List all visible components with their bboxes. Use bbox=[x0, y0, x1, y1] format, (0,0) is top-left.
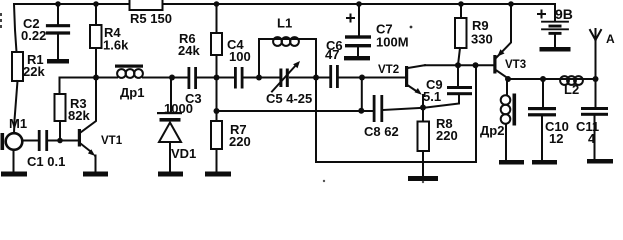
svg-text:5.1: 5.1 bbox=[423, 89, 441, 104]
wire Dr2 to ground bbox=[505, 124, 507, 160]
inductor L1 bbox=[273, 37, 282, 46]
wire C9 to VT2 emitter node bbox=[424, 95, 459, 108]
wire VT2 collector to VT3 base bbox=[425, 64, 493, 66]
resistor R7 bbox=[211, 121, 222, 149]
svg-text:C5 4-25: C5 4-25 bbox=[266, 91, 312, 106]
wire rail to R6 bbox=[216, 4, 218, 33]
capacitor C8 bbox=[373, 95, 376, 122]
svg-text:1000: 1000 bbox=[164, 101, 193, 116]
capacitor C1 bbox=[38, 130, 41, 151]
inductor Dr2 choke bbox=[501, 95, 511, 105]
wire Dr1 to C3 bbox=[143, 77, 188, 79]
node C8 left junction bbox=[358, 108, 364, 114]
node rail / R4 junction bbox=[93, 1, 99, 7]
resistor R1 bbox=[12, 52, 23, 81]
node tank feedback leg junction bbox=[473, 62, 479, 68]
ground under C2 bbox=[47, 59, 69, 64]
capacitor C7 electrolytic bbox=[345, 35, 371, 38]
svg-text:0.22: 0.22 bbox=[21, 28, 46, 43]
capacitor C4 bbox=[234, 67, 237, 89]
wire rail to C2 bbox=[57, 4, 59, 24]
wire C1 to VT1 base bbox=[48, 140, 78, 142]
svg-text:47: 47 bbox=[325, 47, 339, 62]
svg-text:220: 220 bbox=[436, 128, 458, 143]
resistor R5 bbox=[130, 0, 163, 10]
capacitor C3 bbox=[188, 67, 191, 89]
wire rail to R4 bbox=[95, 4, 97, 25]
wire VD1 to ground bbox=[169, 142, 171, 172]
node rail / C7 junction bbox=[356, 1, 362, 7]
scan artifact speck bbox=[323, 180, 325, 182]
svg-text:A: A bbox=[606, 32, 615, 46]
ground under R7 bbox=[205, 172, 231, 177]
wire C5 to C6 bbox=[290, 77, 329, 79]
wire node to Dr2 bbox=[506, 79, 508, 95]
battery GB 9V bbox=[542, 21, 568, 23]
wire top supply rail left segment bbox=[14, 3, 130, 5]
wire VT3 collector output line bbox=[508, 78, 596, 80]
antenna A bbox=[590, 30, 601, 40]
scan artifact marks left edge bbox=[0, 13, 2, 16]
transistor VT1 bbox=[78, 129, 81, 147]
ground under R8 bbox=[408, 176, 438, 181]
node R9 / C9 junction bbox=[455, 62, 461, 68]
svg-text:VT2: VT2 bbox=[378, 64, 399, 76]
ground under Dr2 bbox=[499, 160, 524, 165]
transistor VT2 bbox=[405, 66, 408, 87]
svg-text:82k: 82k bbox=[68, 108, 90, 123]
resistor R8 bbox=[418, 122, 430, 152]
capacitor C2 bbox=[48, 26, 69, 33]
wire R7 to ground bbox=[216, 149, 218, 172]
label C7 polarity plus bbox=[347, 15, 354, 22]
ground under VT1 emitter bbox=[83, 172, 108, 177]
wire rail to R9 bbox=[460, 4, 462, 18]
wire rail to C7 bbox=[358, 4, 360, 35]
svg-text:9В: 9В bbox=[555, 6, 573, 22]
capacitor C9 bbox=[447, 86, 472, 89]
ground under C10 bbox=[532, 160, 557, 165]
node VT3 collector / Dr2 junction bbox=[505, 76, 511, 82]
resistor R9 bbox=[455, 18, 467, 48]
wire C10 to ground bbox=[541, 116, 543, 160]
ground under M1 bbox=[1, 172, 27, 177]
wire node to C11 bbox=[595, 79, 597, 107]
capacitor C5 variable trimmer bbox=[279, 69, 282, 88]
node rail / C2 junction bbox=[55, 1, 61, 7]
node R6 / R7 / C3 / C4 junction bbox=[214, 75, 220, 81]
inductor Dr1 choke bbox=[117, 69, 126, 78]
microphone M1 bbox=[6, 133, 23, 150]
wire R6 to node bbox=[216, 55, 218, 78]
capacitor C6 bbox=[329, 65, 332, 88]
wire rail corner down to R1 bbox=[14, 4, 17, 52]
svg-text:12: 12 bbox=[549, 131, 563, 146]
svg-text:22k: 22k bbox=[23, 64, 45, 79]
ground under C7 bbox=[344, 56, 370, 60]
wire R3 top lead to collector node bbox=[60, 78, 97, 95]
svg-text:VT3: VT3 bbox=[505, 59, 526, 71]
node L1 right leg / tank junction bbox=[313, 75, 319, 81]
svg-text:100: 100 bbox=[229, 49, 251, 64]
scan artifact speck bbox=[422, 181, 424, 183]
svg-text:Др1: Др1 bbox=[120, 85, 144, 100]
node L1 left leg junction bbox=[256, 75, 262, 81]
wire battery to ground bbox=[554, 35, 556, 47]
wire M1 to C1 bbox=[22, 140, 38, 142]
wire C6 to VT2 base bbox=[339, 77, 405, 79]
capacitor C10 bbox=[528, 107, 556, 110]
wire base bias feedback line bbox=[217, 110, 373, 112]
svg-text:C8 62: C8 62 bbox=[364, 124, 399, 139]
inductor L2 bbox=[560, 76, 569, 85]
resistor R3 bbox=[55, 94, 66, 121]
wire collector line to C9 bbox=[457, 65, 459, 86]
scan artifact speck bbox=[410, 26, 413, 29]
node rail / R6 junction bbox=[214, 1, 220, 7]
svg-text:220: 220 bbox=[229, 134, 251, 149]
node rail / VT3 emitter junction bbox=[508, 1, 514, 7]
svg-text:VT1: VT1 bbox=[101, 135, 123, 147]
wire VT2 base node down to C8 line bbox=[361, 78, 363, 111]
node antenna / C11 junction bbox=[593, 76, 599, 82]
wire node to R7 bbox=[216, 78, 218, 122]
wire node to Dr1 bbox=[96, 77, 117, 79]
svg-text:L2: L2 bbox=[564, 82, 579, 97]
svg-text:VD1: VD1 bbox=[171, 146, 196, 161]
svg-text:M1: M1 bbox=[9, 116, 27, 131]
ground under VD1 bbox=[158, 172, 183, 177]
wire R3 bottom lead bbox=[59, 121, 61, 141]
wire C3 to C4 bbox=[197, 77, 234, 79]
wire tank node to collector line loop bbox=[316, 65, 476, 162]
wire C11 to ground bbox=[594, 116, 596, 159]
node R7 / bias line junction bbox=[214, 108, 220, 114]
wire C2 to ground bbox=[57, 35, 59, 59]
wire C4 to C5 bbox=[244, 77, 281, 79]
svg-text:100M: 100M bbox=[376, 35, 409, 50]
wire M1 to ground bbox=[13, 150, 15, 172]
ground under battery bbox=[540, 47, 571, 52]
capacitor C11 bbox=[581, 107, 608, 110]
label battery polarity plus bbox=[538, 11, 545, 18]
node VT2 base junction bbox=[359, 75, 365, 81]
node R4 / R3 / VT1 collector / Dr1 junction bbox=[93, 75, 99, 81]
svg-text:330: 330 bbox=[471, 32, 493, 47]
wire L1 bridge legs bbox=[259, 39, 316, 78]
node C10 junction bbox=[540, 76, 546, 82]
transistor VT3 bbox=[493, 55, 496, 74]
node VT2 emitter / R8 / C8 junction bbox=[420, 105, 426, 111]
resistor R4 bbox=[90, 25, 102, 48]
wire R4 to node bbox=[95, 48, 97, 78]
svg-text:C1 0.1: C1 0.1 bbox=[27, 154, 65, 169]
wire R9 to collector line bbox=[458, 48, 460, 65]
wire top supply rail right segment bbox=[163, 3, 555, 5]
resistor R6 bbox=[211, 33, 222, 55]
node VD1 tap junction bbox=[169, 75, 175, 81]
wire node to C10 bbox=[542, 79, 544, 107]
node VT1 base / R3 junction bbox=[57, 138, 63, 144]
svg-text:L1: L1 bbox=[277, 16, 292, 31]
wire C8 to VT2 emitter node bbox=[383, 108, 423, 110]
svg-text:1.6k: 1.6k bbox=[103, 38, 129, 53]
wire R8 to ground crossing bottom line bbox=[422, 151, 424, 176]
svg-text:Др2: Др2 bbox=[480, 123, 504, 138]
ground under C11 bbox=[587, 159, 613, 164]
wire antenna lead bbox=[595, 29, 597, 79]
wire R1 to microphone bbox=[14, 81, 18, 133]
node rail / R9 junction bbox=[458, 1, 464, 7]
wire node to VD1 bbox=[170, 78, 172, 113]
svg-text:24k: 24k bbox=[178, 43, 200, 58]
diode VD1 zener bbox=[157, 112, 182, 114]
wire C7 to ground bbox=[357, 47, 359, 56]
svg-text:R5 150: R5 150 bbox=[130, 11, 172, 26]
wire rail to battery bbox=[554, 4, 556, 22]
